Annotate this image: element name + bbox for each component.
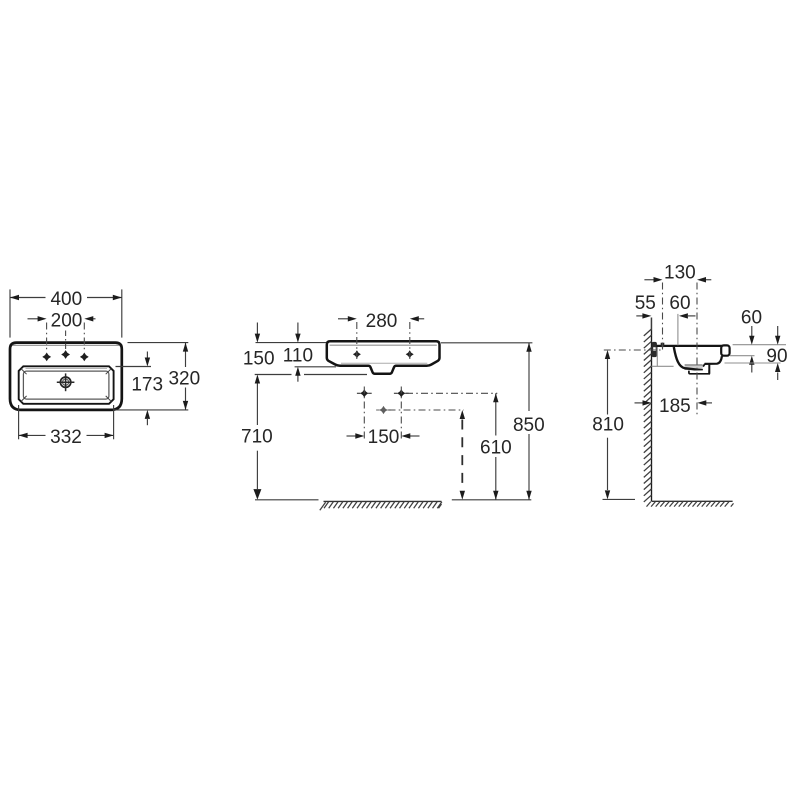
side deck top line bbox=[657, 345, 723, 347]
dim 150 arrow top bbox=[256, 323, 258, 335]
dim 320 arrow top bbox=[183, 343, 188, 352]
dim 110 extension bottom bbox=[295, 366, 336, 368]
dim 850 arrow top bbox=[526, 343, 531, 352]
plan basin top highlight line bbox=[26, 368, 108, 370]
svg-text:55: 55 bbox=[635, 293, 656, 314]
svg-text:400: 400 bbox=[50, 289, 82, 310]
supply cross left bbox=[360, 389, 368, 397]
svg-text:60: 60 bbox=[741, 308, 762, 329]
svg-text:173: 173 bbox=[131, 375, 163, 396]
dim 110 arrow top bbox=[297, 323, 299, 335]
faucet hole left bbox=[42, 353, 51, 362]
dashed dimension arrow top bbox=[460, 410, 465, 419]
dim 610 arrow bottom bbox=[493, 491, 498, 500]
dim 810 line bbox=[607, 358, 609, 415]
dim 320 arrow bottom bbox=[183, 401, 188, 410]
drain recess shading bbox=[685, 365, 703, 370]
dim 332 extension left bbox=[18, 405, 20, 439]
dim 850 arrow bottom bbox=[526, 491, 531, 500]
dim 320 extension bottom bbox=[113, 409, 188, 411]
svg-text:150: 150 bbox=[368, 427, 400, 448]
svg-text:185: 185 bbox=[659, 396, 691, 417]
dim 610 arrow top bbox=[493, 393, 498, 402]
dim 850 line bbox=[528, 343, 530, 411]
svg-text:130: 130 bbox=[664, 263, 696, 284]
faucet hole right bbox=[80, 353, 89, 362]
svg-text:60: 60 bbox=[669, 293, 690, 314]
fixing hole left bbox=[353, 350, 361, 358]
dim 710 arrow bottom bbox=[253, 489, 261, 500]
svg-text:810: 810 bbox=[592, 415, 624, 436]
dim 810 arrow top bbox=[605, 350, 610, 359]
fixing hole right bbox=[406, 350, 414, 358]
dim 60L extension bbox=[677, 314, 679, 345]
dim 150 bottom arrow left bbox=[347, 435, 358, 437]
centreline fixing right bbox=[409, 322, 411, 362]
washbasin plan view outer body outline bbox=[10, 343, 122, 410]
dim 332 arrow right bbox=[105, 433, 114, 438]
dim 710 arrow top bbox=[255, 375, 260, 384]
svg-text:90: 90 bbox=[766, 346, 787, 367]
dim 400 arrow right bbox=[113, 295, 122, 300]
centreline supply horizontal bbox=[406, 392, 497, 394]
dim 320 line bbox=[185, 343, 187, 367]
fixing bracket bbox=[652, 342, 657, 357]
dim top extension line left bbox=[256, 342, 327, 344]
side faucet hole mark bbox=[661, 343, 665, 347]
dashed dimension line bbox=[461, 420, 463, 491]
side back inner wall bbox=[674, 347, 703, 370]
dim 280 arrow right bbox=[414, 318, 424, 320]
dim 55 arrow bbox=[636, 315, 644, 317]
dim 400 line bbox=[10, 297, 46, 299]
dim 60R extension top bbox=[733, 344, 786, 346]
centreline supply left bbox=[363, 387, 365, 441]
washbasin front view outline bbox=[327, 341, 440, 373]
dim 400 extension line left bbox=[9, 289, 11, 337]
svg-text:710: 710 bbox=[241, 427, 273, 448]
svg-text:850: 850 bbox=[513, 415, 545, 436]
side back lower gray lines bbox=[656, 347, 658, 366]
centreline faucet left bbox=[46, 323, 48, 352]
front step gray line bbox=[341, 362, 427, 364]
dim 320 extension top bbox=[128, 342, 189, 344]
dim 60R extension bottom bbox=[730, 355, 755, 357]
dim 332 extension right bbox=[113, 405, 115, 439]
centreline faucet centre bbox=[65, 331, 67, 351]
drain symbol bbox=[60, 377, 70, 387]
centreline drain side bbox=[696, 283, 698, 417]
dim 60L arrow bbox=[679, 313, 688, 318]
dim 150 bottom arrow right bbox=[408, 435, 420, 437]
drain cross bbox=[379, 406, 387, 414]
floor hatching right view bbox=[652, 500, 733, 502]
dim 90 extension bottom bbox=[725, 362, 781, 364]
side recess step bbox=[703, 364, 705, 367]
supply cross right bbox=[397, 389, 405, 397]
side bottom ledge and front curve bbox=[705, 356, 722, 364]
dim 173 arrow top bbox=[146, 352, 148, 358]
plan basin inner bottom edge bbox=[23, 371, 109, 399]
dim 400 extension line right bbox=[121, 289, 123, 337]
dim 200 arrow left bbox=[28, 318, 40, 320]
svg-text:332: 332 bbox=[50, 427, 82, 448]
floor hatching middle view bbox=[324, 500, 442, 502]
dim 332 line bbox=[19, 434, 46, 436]
dim 60R arrow bottom bbox=[751, 364, 753, 373]
dim 332 arrow left bbox=[19, 433, 28, 438]
side front rim ring bbox=[721, 345, 729, 355]
front rim inner gray line bbox=[330, 344, 437, 346]
dim 173 extension top bbox=[116, 366, 152, 368]
svg-text:150: 150 bbox=[243, 349, 275, 370]
dim 55 extension bbox=[650, 318, 652, 331]
centreline fixing left bbox=[356, 322, 358, 362]
dim 200 arrow right bbox=[92, 318, 96, 320]
dim 280 arrow left bbox=[338, 318, 350, 320]
wall hatching bbox=[644, 329, 652, 336]
centreline faucet side bbox=[662, 283, 664, 351]
svg-text:280: 280 bbox=[366, 311, 398, 332]
dim 185 arrow right bbox=[706, 402, 713, 404]
dim 130 arrow left bbox=[644, 279, 655, 281]
wall face line bbox=[651, 318, 653, 502]
centreline faucet right bbox=[83, 323, 85, 352]
dim 810 arrow bottom bbox=[605, 490, 610, 499]
dim 60R arrow top bbox=[751, 326, 753, 337]
dim 610 line bbox=[495, 393, 497, 435]
fixing axis line bbox=[604, 349, 661, 351]
floor extension line bbox=[255, 499, 319, 501]
dim 90 arrow bottom bbox=[777, 373, 779, 381]
dim 173 arrow bottom bbox=[146, 419, 148, 425]
svg-text:320: 320 bbox=[168, 369, 200, 390]
dim 130 arrow right bbox=[703, 279, 711, 281]
dim 185 arrow left bbox=[635, 402, 645, 404]
plan rim inner gray line bbox=[13, 344, 120, 346]
svg-text:200: 200 bbox=[51, 311, 83, 332]
dim top extension line right bbox=[441, 342, 532, 344]
dim 400 arrow left bbox=[10, 295, 19, 300]
svg-text:610: 610 bbox=[480, 438, 512, 459]
plan basin outer edge (chamfered) bbox=[19, 366, 114, 404]
centreline drain horizontal bbox=[389, 409, 465, 411]
faucet hole centre bbox=[61, 350, 70, 359]
dim 710 line bbox=[256, 384, 258, 426]
dim 90 arrow top bbox=[777, 326, 779, 337]
dim 110 arrow bottom bbox=[297, 376, 299, 382]
dashed dimension arrow bottom bbox=[460, 491, 465, 500]
centreline supply right bbox=[400, 387, 402, 441]
side trap cover bbox=[689, 370, 709, 374]
dim 150 extension bottom bbox=[255, 374, 292, 376]
svg-text:110: 110 bbox=[283, 346, 313, 367]
plan basin corner facet lines bbox=[21, 369, 27, 375]
floor extension line right view bbox=[603, 498, 636, 500]
side trap riser bbox=[708, 364, 710, 374]
